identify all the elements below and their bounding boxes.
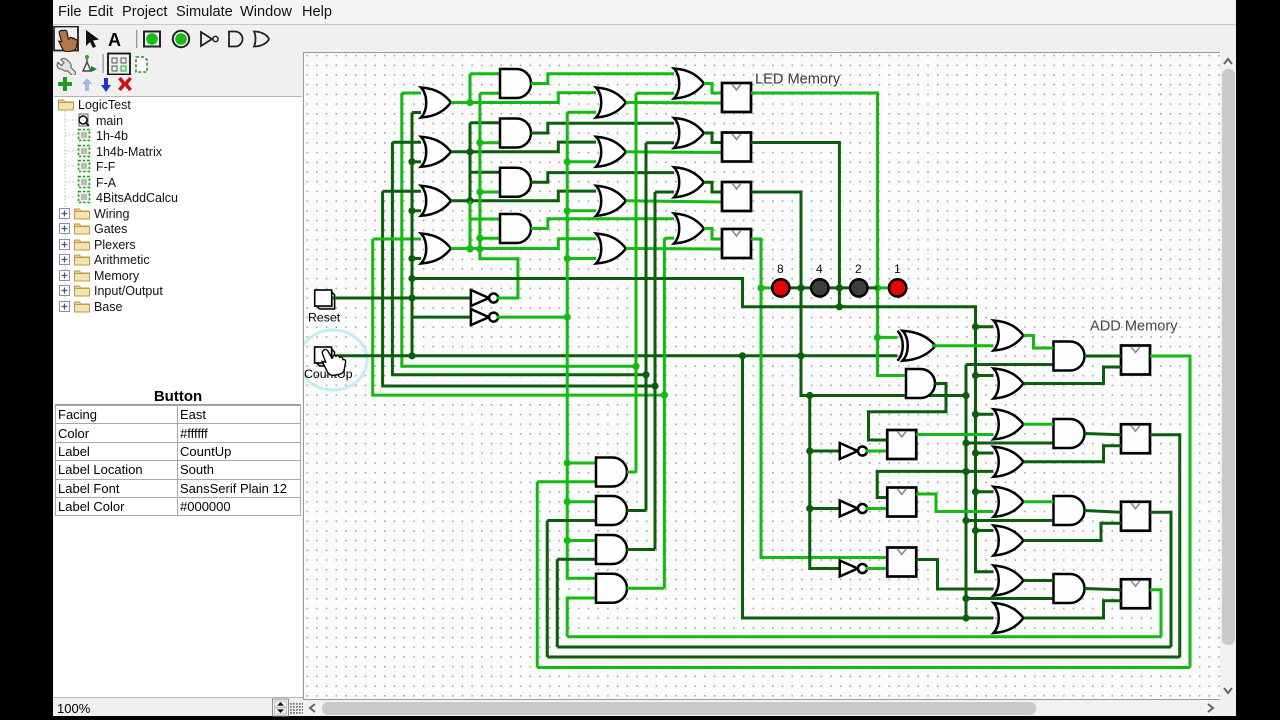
wire orL4 top-in [373,238,421,241]
wire ff4 q [751,239,887,558]
wire orL4 btm-in [412,257,421,260]
wire bl3 out [627,548,655,551]
wire nf2 pin1 [877,471,993,497]
wire orL1 out [451,93,596,103]
wire and3 out [531,173,674,183]
wire not in [810,507,840,510]
node x469-j [466,245,473,252]
node x566-c3 [564,158,571,165]
or-gate R1 [994,321,1024,351]
and-gate X2 [906,369,935,398]
node reset-rail-j [408,158,415,165]
wire reset to inv1 [332,297,471,300]
and-gate A4 [500,214,531,243]
node x974-j [972,372,979,379]
wire col3 r2 out [626,150,722,154]
wire and1 top-in [470,72,500,75]
wire bus636 [567,635,1161,638]
wire andR btm-in [966,442,1054,445]
wire rf2 q [1150,435,1180,657]
node x478-b [476,245,483,252]
node ff2q-join [836,303,843,310]
not-gate N1 [840,443,867,459]
and-gate BL3 [596,535,627,564]
wire bl1 btm-in [537,480,596,483]
wire orR top-in [976,490,994,493]
led LED4 [811,279,828,296]
or-gate D2 [674,118,704,148]
wire rail x965 [965,365,968,619]
node x478-t [476,139,483,146]
wire orL1 top-in [402,92,421,95]
node x974-j [972,449,979,456]
flip-flop FF4 [722,229,751,258]
wire rf3 q [1150,512,1171,647]
and-gate A3 [500,168,531,197]
wire rail x546 [546,521,549,658]
svg-text:2: 2 [855,262,862,276]
svg-text:1: 1 [894,262,901,276]
or-gate L4 [421,234,451,264]
node x974-j [972,323,979,330]
not-gate N2 [840,501,867,517]
wire col4 r3 out [704,182,722,192]
wire and btm-in [480,237,500,240]
wire col3 btm-in [567,209,596,212]
node x469-j [466,148,473,155]
flip-flop RF4 [1121,579,1150,608]
and-gate RA3 [1054,496,1085,525]
node countup-x741 [739,352,746,359]
wire inv2 out [497,316,567,319]
wire ra4 out [1085,589,1122,590]
wire rail x469 mid [469,123,472,201]
wire andR btm-in [966,519,1054,522]
flip-flop RF3 [1121,502,1150,531]
node x965-orr4 [962,468,969,475]
or-gate R3 [994,409,1024,439]
and-gate BL4 [596,574,627,603]
wire bus646 [557,646,1171,649]
node inv2-j [564,314,571,321]
or-gate D4 [674,214,704,244]
wire orR top-in [976,529,994,532]
wire led2 in [829,286,852,289]
wire orL2 top-in [392,141,421,144]
and-gate BL2 [596,496,627,525]
svg-text:A: A [108,30,121,50]
wire x2 out [869,384,947,441]
flip-flop FF2 [722,133,751,162]
wire r2 out [1024,367,1122,384]
wire n3 out [866,567,888,570]
flip-flop RF1 [1121,346,1150,375]
node bigwire-j [408,275,415,282]
wire col4 r1 out [704,84,722,94]
wire orL4 out [451,239,596,249]
wire orL3 btm-in [412,209,421,212]
selection halo [299,330,367,390]
node x965-t [962,439,969,446]
node bus1-j [632,363,639,370]
node x566-j [564,459,571,466]
wire bl4 out [627,587,664,590]
wire xor out [932,344,994,347]
inverter INV1 [471,290,498,306]
wire rail x645 [645,143,648,511]
wire bl4 btm-in [567,598,596,637]
wire ra2 out [1085,434,1122,435]
and-gate RA1 [1054,342,1085,371]
wire orL3 out [451,191,596,201]
wire col4 r4 out [704,229,722,240]
wire and4 out [531,219,674,229]
wire bl2 btm-in [547,519,596,522]
or-gate C1 [596,88,626,118]
wire and1 btm-in [480,92,500,95]
wire col4 r4 btm-in [664,237,674,240]
button Reset [315,290,335,309]
wire nf2 q [916,494,993,512]
wire feedback bus3 [383,191,655,386]
not-gate N3 [840,561,867,577]
node x478-t [476,188,483,195]
wire col3 r4 out [626,247,722,251]
wire inv1 out [480,249,518,298]
svg-text:LED Memory: LED Memory [755,72,841,88]
xor-gate X1 [903,331,936,361]
wire led8 in [761,286,772,289]
wire rf1 q [1150,356,1190,668]
node x566-j [564,498,571,505]
wire col4 r1 btm-in [636,92,674,95]
wire ff1 q [751,93,906,376]
node led1-j [874,284,881,291]
svg-text:Reset: Reset [308,311,341,325]
wire rail x654 [654,192,657,550]
wire nf3 q [916,560,993,590]
wire and1 out [531,74,674,84]
node bus4-j [661,392,668,399]
wire and4 top-in [470,218,500,221]
node bus2-j [642,371,649,378]
svg-text:8: 8 [777,262,784,276]
node x965-j [962,392,969,399]
wire rail x808 [810,396,840,569]
svg-text:ADD Memory: ADD Memory [1090,319,1178,335]
wire col4 r3 btm-in [655,191,674,194]
wire r3 out [1024,423,1054,426]
wire r8 out [1024,601,1122,618]
or-gate D3 [674,167,704,197]
or-gate R2 [994,369,1024,399]
node x974-j [972,488,979,495]
wire rf4 q [1150,590,1161,637]
wire and2 out [531,123,674,133]
wire col3 btm-in [567,160,596,163]
node x566-j [564,537,571,544]
wire orR top-in [976,374,994,377]
wire reset long run [412,279,994,572]
or-gate L2 [421,137,451,167]
wire bus656 [547,656,1180,659]
flip-flop RF2 [1121,424,1150,453]
wire bl top-in [567,539,596,542]
wire led4 in [790,286,812,289]
cursor hand [322,349,345,375]
node led4-j [797,284,804,291]
node countup-x800 [797,352,804,359]
wire r5 out [1024,500,1054,503]
svg-text:4: 4 [816,262,823,276]
node bus3-j [651,382,658,389]
wire rail x556 [556,559,559,647]
wire col3 r1 btm-in [567,111,596,114]
wire reset to inv2 [412,298,471,317]
or-gate C3 [596,186,626,216]
or-gate R7 [994,566,1024,596]
wire reset rail [411,113,414,356]
wire bl3 btm-in [557,558,596,561]
led LED2 [850,279,867,296]
flip-flop NF1 [887,430,916,459]
or-gate R5 [994,487,1024,517]
wire rail x536 [536,482,539,668]
node countup-j [408,352,415,359]
wire bl1 out [627,471,636,474]
wire andR btm-in [966,597,1054,600]
wire and btm-in [480,141,500,144]
node reset-j [408,294,415,301]
wire and btm-in [480,191,500,194]
node x965-t [962,517,969,524]
wire ff3 q [751,192,966,396]
and-gate RA2 [1054,419,1085,448]
or-gate C4 [596,234,626,264]
wire r1 out [1024,336,1054,349]
and-gate A2 [500,119,531,148]
and-gate A1 [500,69,531,98]
node x965-t [962,595,969,602]
wire n1 out [866,450,888,453]
wire bl top-in [567,462,596,465]
wire bl top-in [567,500,596,503]
wire rail x663 [663,238,666,588]
wire bl2 out [627,509,646,512]
flip-flop NF3 [887,548,916,577]
node x469-j [466,197,473,204]
node x808-j [806,447,813,454]
wire ra3 out [1085,511,1122,513]
or-gate D1 [674,69,704,99]
wire feedback bus2 [392,142,646,374]
wire rail x469 upper [469,74,472,104]
node x469-j [466,99,473,106]
node x974-j [972,411,979,418]
wire col4 r2 btm-in [646,141,674,144]
wire xor top-in [878,336,898,339]
wire feedback bus1 [402,93,636,366]
wire ra1 out [1085,355,1122,358]
wire orR top-in [976,452,994,455]
wire not in [810,450,840,453]
wire bus666 [537,666,1190,669]
node reset-rail-j [408,255,415,262]
button CountUp [315,347,335,366]
wire orL2 out [451,142,596,152]
or-gate C2 [596,137,626,167]
wire col3 r1 out [626,101,722,105]
node x974-j [972,527,979,534]
node x478-t [476,235,483,242]
wire orR top-in [976,413,994,416]
wire led1 seg [868,286,878,289]
or-gate L1 [421,88,451,118]
wire rail x741 to bus617 [743,356,994,618]
inverter INV2 [471,309,498,325]
wire and3 top-in [470,171,500,174]
or-gate R4 [994,447,1024,477]
wire feedback bus4 [373,239,665,395]
wire orL2 btm-in [412,160,421,163]
led LED1 [889,279,906,296]
wire col3 r3 out [626,201,722,202]
wire col4 r2 out [704,133,722,143]
wire r6 out [1024,523,1122,540]
or-gate L3 [421,186,451,216]
wire r4 out [1024,446,1122,462]
wire nf1 q [916,433,993,436]
wire led1 in [878,286,890,289]
wire orR top-in [976,325,994,328]
wire orL1 btm-in [412,111,421,114]
wire n2 out [866,507,888,510]
or-gate R8 [994,603,1024,633]
node led2-j [836,284,843,291]
led LED8 [772,279,789,296]
wire orL3 top-in [383,190,421,193]
node reset-rail-j [408,207,415,214]
and-gate BL1 [596,458,627,487]
node led8-j [757,284,764,291]
node x566-c3 [564,255,571,262]
wire andR1 btm-in [966,363,1054,366]
node x566-c3 [564,207,571,214]
flip-flop FF1 [722,83,751,112]
node x808-j [806,505,813,512]
node bus617-j [962,614,969,621]
wire r7 out [1024,579,1054,582]
and-gate RA4 [1054,574,1085,603]
wire countup bus [334,354,897,357]
wire col3 btm-in [567,257,596,260]
flip-flop NF2 [887,488,916,517]
node xor-j [874,334,881,341]
wire rail x635 [635,93,638,472]
wire ff2 q [751,143,839,307]
node notrail-j [806,392,813,399]
node orl4-out-j [466,245,473,252]
or-gate R6 [994,526,1024,556]
wire rail x469 lower [469,201,472,249]
wire and2 top-in [470,121,500,124]
flip-flop FF3 [722,182,751,211]
wire rail x478 [478,93,481,249]
wire rail x566 [567,112,596,578]
